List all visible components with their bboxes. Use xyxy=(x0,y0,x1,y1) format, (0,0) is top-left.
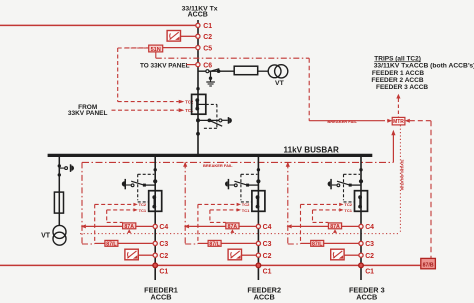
svg-text:C3: C3 xyxy=(263,241,272,248)
svg-text:TC2: TC2 xyxy=(344,202,352,207)
svg-text:C1: C1 xyxy=(263,268,272,275)
svg-text:ACCB: ACCB xyxy=(150,292,171,301)
svg-text:C5: C5 xyxy=(203,45,212,52)
svg-text:FEEDER 2 ACCB: FEEDER 2 ACCB xyxy=(371,77,423,84)
svg-text:TC2: TC2 xyxy=(242,202,250,207)
svg-text:C2: C2 xyxy=(203,34,212,41)
svg-text:C3: C3 xyxy=(365,241,374,248)
svg-text:INTERTRIP INITIATE: INTERTRIP INITIATE xyxy=(400,160,404,191)
svg-text:TC2: TC2 xyxy=(185,100,194,105)
svg-text:C4: C4 xyxy=(263,224,272,231)
svg-text:TC2: TC2 xyxy=(139,202,147,207)
svg-text:C4: C4 xyxy=(159,224,168,231)
svg-text:FEEDER 3 ACCB: FEEDER 3 ACCB xyxy=(376,84,428,91)
svg-text:TC1: TC1 xyxy=(242,208,250,213)
svg-text:C2: C2 xyxy=(159,253,168,260)
svg-text:C1: C1 xyxy=(203,23,212,30)
svg-text:87/L: 87/L xyxy=(106,241,117,247)
svg-text:87A: 87A xyxy=(124,224,134,230)
svg-text:ACCB: ACCB xyxy=(188,12,208,19)
svg-text:MTR: MTR xyxy=(393,119,404,125)
svg-text:C1: C1 xyxy=(365,268,374,275)
svg-text:TO 33KV PANEL: TO 33KV PANEL xyxy=(140,62,190,69)
svg-text:C2: C2 xyxy=(365,253,374,260)
svg-text:C1: C1 xyxy=(159,268,168,275)
svg-text:33KV PANEL: 33KV PANEL xyxy=(68,110,108,117)
svg-text:87A: 87A xyxy=(330,224,340,230)
svg-text:VT: VT xyxy=(275,80,285,87)
svg-text:33/11KV TxACCB (both ACCB’s): 33/11KV TxACCB (both ACCB’s) xyxy=(374,63,474,70)
svg-text:TC1: TC1 xyxy=(139,208,147,213)
svg-text:87/L: 87/L xyxy=(209,241,220,247)
svg-text:ACCB: ACCB xyxy=(356,292,377,301)
svg-text:VT: VT xyxy=(41,233,51,240)
svg-text:11kV BUSBAR: 11kV BUSBAR xyxy=(284,145,339,154)
svg-text:87/L: 87/L xyxy=(312,241,323,247)
svg-text:TRIPS (all TC2): TRIPS (all TC2) xyxy=(374,55,421,62)
svg-text:C6: C6 xyxy=(203,62,212,69)
svg-text:BREAKER FAIL: BREAKER FAIL xyxy=(203,163,233,168)
svg-text:C3: C3 xyxy=(159,241,168,248)
svg-text:C2: C2 xyxy=(263,253,272,260)
svg-text:ACCB: ACCB xyxy=(254,292,275,301)
svg-text:C4: C4 xyxy=(365,224,374,231)
svg-text:87/B: 87/B xyxy=(423,263,434,269)
svg-text:TC1: TC1 xyxy=(185,108,194,113)
svg-text:87A: 87A xyxy=(228,224,238,230)
svg-text:TC1: TC1 xyxy=(344,208,352,213)
svg-text:BREAKER FAIL: BREAKER FAIL xyxy=(327,119,357,124)
svg-text:FEEDER 1 ACCB: FEEDER 1 ACCB xyxy=(372,70,424,77)
